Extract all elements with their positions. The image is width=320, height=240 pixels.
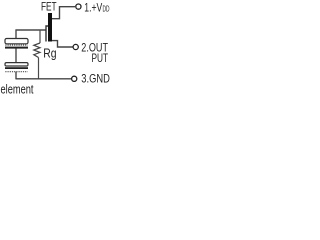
wire element top lead [15,30,17,39]
svg-text:Rg: Rg [43,46,56,61]
wire ground bus to pin 3 [16,78,72,80]
element back plate 1 (solid bar) [5,47,28,49]
svg-text:PUT: PUT [92,51,109,65]
transistor FET gate bar [46,26,49,42]
element electret film 2 (dotted line) [5,71,27,73]
terminal pin 3 [72,76,77,81]
resistor Rg bottom lead [38,58,40,80]
svg-text:FET: FET [41,0,57,14]
wire between plates [15,49,17,63]
transistor FET channel bar [48,13,52,42]
svg-text:1.+V: 1.+V [84,1,102,15]
svg-text:DD: DD [103,5,110,14]
wire source to pin 2 [52,41,73,47]
resistor Rg top lead [39,30,41,44]
wire drain to pin 1 [52,7,75,19]
element electret film 1 (dotted line) [5,44,27,46]
element plate 1 (rounded box) [5,39,28,44]
terminal pin 2 [73,44,78,49]
wire gate horizontal from element to gate bar [16,29,47,31]
svg-text:3.GND: 3.GND [81,72,110,86]
element back plate 2 (solid bar) [5,67,28,69]
terminal pin 1 [76,4,81,9]
wire element bottom lead [15,72,17,79]
element plate 2 (rounded box) [5,63,28,66]
svg-text:element: element [1,82,34,97]
resistor Rg zigzag [34,43,40,58]
